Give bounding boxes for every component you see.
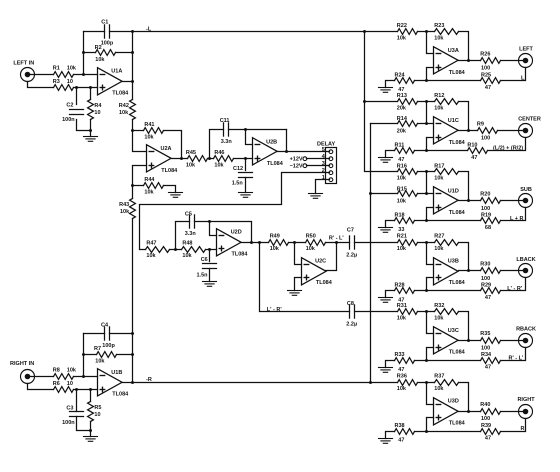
svg-text:R37: R37 [434,374,444,380]
svg-text:R47: R47 [146,240,156,246]
resistor R26 [480,51,500,71]
svg-text:R38: R38 [395,423,405,429]
wire [132,32,134,100]
node [174,248,177,251]
op-amp U3C [434,327,466,356]
svg-text:U3A: U3A [448,48,459,54]
svg-text:10k: 10k [306,246,316,252]
resistor R37 [434,374,458,392]
svg-text:R24: R24 [395,72,406,78]
svg-text:100n: 100n [62,117,75,123]
op-amp U2D [217,229,249,258]
resistor R40 [480,402,500,422]
node [293,241,296,244]
node [467,410,470,413]
ground [379,88,393,93]
svg-text:10k: 10k [397,199,407,205]
net L-R [267,307,283,313]
resistor R31 [397,303,418,321]
svg-text:10k: 10k [146,253,156,259]
svg-text:47: 47 [471,155,477,161]
wire [418,31,435,33]
svg-text:R11: R11 [395,142,405,148]
ground [379,228,393,233]
wire [295,278,302,291]
resistor R22 [397,23,418,41]
wire [418,382,435,384]
net R' - L' [509,356,525,362]
ground [84,137,98,142]
node [82,375,85,378]
svg-text:R40: R40 [480,402,490,408]
pin 3 [322,161,333,168]
svg-text:L' - R': L' - R' [267,307,283,313]
wire [164,131,182,159]
svg-text:R33: R33 [395,352,405,358]
capacitor C6 [197,257,217,278]
resistor R18 [395,213,415,234]
wire [418,242,435,244]
op-amp U2B [253,138,284,167]
op-amp U1C [434,117,466,146]
wire [427,138,434,151]
svg-text:TL084: TL084 [112,392,129,398]
wire [427,32,434,54]
wire [133,185,144,187]
resistor R47 [146,240,170,259]
svg-text:R13: R13 [397,93,407,99]
wire [415,431,481,433]
svg-text:L' - R': L' - R' [507,286,523,292]
svg-text:R15: R15 [397,186,407,192]
wire [459,130,478,132]
wire pin1 to ground [316,180,330,194]
capacitor C5 [185,212,197,238]
svg-text:R' - L': R' - L' [329,236,345,242]
svg-text:TL084: TL084 [449,280,466,286]
ground [379,439,393,444]
wire [90,88,92,100]
wire [415,220,481,222]
wire [459,270,481,272]
svg-text:10k: 10k [144,135,154,141]
wire [210,222,217,236]
wire [418,193,427,195]
wire [286,130,288,152]
wire [459,60,481,62]
node [425,241,428,244]
svg-text:R48: R48 [182,240,192,246]
ground [309,194,323,199]
node [425,79,428,82]
svg-text:R28: R28 [395,283,405,289]
wire [386,361,395,368]
jack SUB [519,187,533,208]
svg-text:U1D: U1D [448,188,459,194]
wire -R line [133,382,398,384]
svg-text:DELAY: DELAY [317,141,335,147]
wire [110,31,133,33]
wire [277,151,330,153]
capacitor C11 [220,118,233,145]
node [82,51,85,54]
wire [28,384,54,390]
wire [84,52,96,54]
node [467,129,470,132]
wire [501,419,526,432]
wire [415,360,481,362]
svg-text:100: 100 [481,346,490,352]
wire [77,120,91,131]
wire [206,249,217,251]
svg-text:47: 47 [398,367,404,373]
jack RBACK [516,327,536,348]
svg-text:C11: C11 [220,118,230,124]
resistor R14 [397,116,418,134]
svg-text:R30: R30 [480,262,490,268]
node [425,310,428,313]
node [425,122,428,125]
node [425,219,428,222]
net L [521,76,525,82]
wire [501,208,526,221]
resistor R44 [144,177,164,195]
wire [229,129,287,131]
net +12V [290,157,307,163]
node [363,100,366,103]
node [82,353,85,356]
svg-text:RIGHT: RIGHT [517,397,535,403]
wire [133,166,147,199]
wire [164,186,176,193]
connector DELAY [317,141,337,183]
wire [133,130,144,132]
node [75,388,78,391]
resistor R39 [481,423,501,442]
svg-text:R20: R20 [480,192,490,198]
wire [501,411,525,413]
resistor R12 [434,93,458,111]
svg-text:C6: C6 [201,257,208,263]
wire [210,130,224,159]
ground [84,437,98,442]
svg-text:100: 100 [481,136,490,142]
svg-text:U2B: U2B [266,139,277,145]
node [425,192,428,195]
svg-text:2.2µ: 2.2µ [346,252,357,258]
resistor R20 [480,192,500,212]
resistor R30 [480,262,500,282]
net R [521,426,525,432]
wire [76,88,78,105]
pin 5 [322,147,333,154]
node [467,339,470,342]
svg-text:10k: 10k [182,253,192,259]
jack J2 RIGHT IN [10,361,34,384]
wire [386,81,395,88]
wire bus -R [370,124,372,383]
svg-text:R27: R27 [434,233,444,239]
wire pin2 to filter [140,173,330,250]
svg-text:20k: 20k [397,129,407,135]
svg-text:R1: R1 [53,65,60,71]
ground [379,158,393,163]
resistor R32 [434,303,458,321]
wire [132,334,134,383]
wire [83,32,85,75]
svg-text:TL084: TL084 [449,210,466,216]
resistor R38 [395,423,415,444]
node [369,192,372,195]
svg-text:R42: R42 [119,103,129,109]
wire L-R branch [260,243,350,312]
node [467,199,470,202]
svg-text:R44: R44 [144,177,155,183]
wire [132,219,134,334]
jack J1 LEFT IN [13,60,34,81]
resistor R45 [186,150,208,169]
svg-text:R' - L': R' - L' [509,356,525,362]
svg-text:3.3n: 3.3n [185,231,197,237]
resistor R42 [119,100,136,120]
resistor R1 [53,65,77,77]
wire [365,101,398,103]
resistor R5 [88,402,102,422]
wire [459,32,469,61]
svg-text:TL084: TL084 [449,350,466,356]
svg-text:100n: 100n [62,420,75,426]
resistor R19 [481,213,501,232]
resistor R50 [306,233,326,252]
node [244,128,247,131]
ground [379,298,393,303]
pin 2 [322,168,333,175]
svg-text:C1: C1 [101,19,108,25]
wire [498,130,525,132]
svg-text:C7: C7 [347,228,354,234]
svg-text:R14: R14 [397,116,408,122]
svg-text:C3: C3 [66,406,73,412]
node [425,100,428,103]
jack CENTER [518,117,541,138]
node [131,381,134,384]
node [208,220,211,223]
wire [427,243,434,265]
wire [501,348,526,361]
svg-text:68: 68 [485,225,491,231]
svg-text:R9: R9 [477,121,484,127]
svg-text:10k: 10k [67,367,77,373]
wire [90,390,92,402]
svg-text:LBACK: LBACK [516,257,535,263]
wire [74,87,98,89]
resistor R48 [182,240,206,259]
wire [386,432,395,439]
svg-text:10k: 10k [397,315,407,321]
svg-text:LEFT: LEFT [519,47,533,53]
node [131,353,134,356]
svg-text:R5: R5 [94,405,101,411]
op-amp U1A [98,68,130,97]
svg-text:RIGHT IN: RIGHT IN [10,361,34,367]
svg-text:10k: 10k [214,162,224,168]
wire [74,376,98,378]
wire [90,422,92,437]
svg-text:R4: R4 [94,103,102,109]
wire [459,172,469,201]
node [82,73,85,76]
wire [84,31,105,33]
svg-text:R2: R2 [95,45,102,51]
wire [209,250,211,262]
wire [29,376,54,378]
node [89,86,92,89]
resistor R7 [94,346,116,364]
wire [172,158,188,160]
svg-text:47: 47 [485,435,491,441]
wire [209,269,211,282]
resistor R6 [53,381,74,392]
wire [459,411,481,413]
resistor R3 [53,79,74,90]
svg-text:U3B: U3B [448,258,459,264]
wire [427,348,434,361]
op-amp U1D [434,187,466,216]
svg-text:3.3n: 3.3n [221,139,233,145]
wire bus -L [365,32,398,172]
svg-text:100: 100 [481,206,490,212]
resistor R21 [397,233,418,251]
node [131,184,134,187]
op-amp U3B [434,258,466,286]
wire [415,80,481,82]
capacitor C3 [62,406,83,426]
resistor R24 [395,72,415,93]
node [425,149,428,152]
node [425,170,428,173]
wire [245,178,247,193]
svg-text:U3D: U3D [448,399,459,405]
svg-text:C4: C4 [101,323,109,329]
resistor R9 [477,121,498,141]
wire [427,312,434,334]
wire [415,150,468,152]
ground [288,291,302,296]
svg-text:10k: 10k [144,189,154,195]
svg-text:(L/2) + (R/2): (L/2) + (R/2) [493,146,523,152]
resistor R43 [119,199,135,219]
wire [355,311,398,313]
wire [123,382,133,384]
resistor R25 [481,72,501,91]
svg-text:C2: C2 [66,103,73,109]
node [208,157,211,160]
wire [501,270,525,272]
svg-text:TL084: TL084 [232,251,249,257]
wire [116,52,133,54]
wire [418,123,427,125]
node [425,289,428,292]
svg-text:R31: R31 [397,303,407,309]
ground [379,368,393,373]
wire [371,193,398,195]
ground [203,282,217,287]
net L + R [510,216,524,222]
svg-text:10k: 10k [434,315,444,321]
wire [427,172,434,194]
wire [28,82,54,88]
node [425,381,428,384]
svg-text:1.5n: 1.5n [232,181,244,187]
node [180,157,183,160]
wire [74,389,98,391]
svg-text:10k: 10k [186,162,196,168]
wire [386,221,395,228]
net -12V [290,164,307,170]
wire [90,120,92,137]
wire [307,158,330,160]
svg-text:R34: R34 [481,352,492,358]
resistor R13 [397,93,418,111]
svg-text:TL084: TL084 [267,161,284,167]
node [285,150,288,153]
svg-text:TL084: TL084 [112,90,129,96]
svg-text:U1A: U1A [111,69,122,75]
capacitor C1 [101,19,114,46]
svg-text:10: 10 [94,412,100,418]
node [425,30,428,33]
node [208,248,211,251]
svg-text:R8: R8 [53,367,60,373]
svg-text:2.2µ: 2.2µ [346,321,357,327]
resistor R4 [88,100,103,120]
wire [195,222,252,243]
resistor R8 [53,367,77,379]
svg-text:U1C: U1C [448,118,459,124]
wire [415,290,481,292]
node [244,157,247,160]
svg-text:R25: R25 [481,72,491,78]
svg-text:10k: 10k [67,65,77,71]
wire [418,101,435,103]
node [131,30,134,33]
resistor R23 [434,23,458,41]
resistor R41 [144,122,164,140]
svg-text:R: R [521,426,525,432]
node [89,129,92,132]
svg-text:−12V: −12V [290,164,303,170]
wire [110,333,133,335]
pin 1 [322,175,333,182]
svg-text:R36: R36 [397,374,407,380]
jack RIGHT [517,397,535,418]
wire [418,171,435,173]
wire [459,102,469,131]
wire [427,418,434,432]
wire [371,123,398,125]
svg-text:TL084: TL084 [316,280,333,286]
wire [427,208,434,221]
capacitor C12 [232,166,253,187]
node [131,80,134,83]
svg-text:R12: R12 [434,93,444,99]
svg-text:TL084: TL084 [449,420,466,426]
svg-text:R23: R23 [434,23,444,29]
svg-text:10k: 10k [95,57,105,63]
wire [123,81,133,83]
pin 4 [322,154,333,161]
wire [488,138,526,151]
